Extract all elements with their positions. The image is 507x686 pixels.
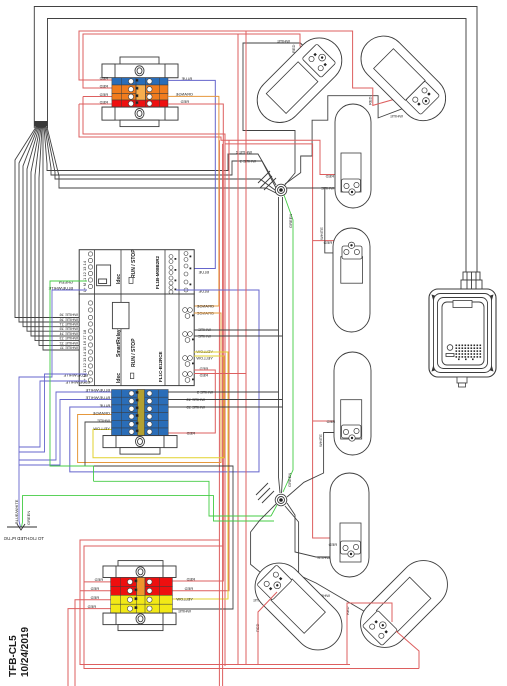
svg-text:YELLOW: YELLOW — [176, 597, 193, 602]
wire white J1 to oval R1 — [287, 187, 341, 189]
red stub TB3 l4 — [68, 609, 111, 686]
svg-text:BLUE: BLUE — [198, 289, 209, 294]
wire orange relay q2 loop — [78, 313, 221, 463]
antenna cable outer run (page border) — [34, 7, 477, 273]
red drop to TB3 loop B — [222, 144, 224, 546]
svg-text:ORANGE: ORANGE — [196, 304, 214, 309]
svg-text:WHITE: WHITE — [198, 327, 211, 332]
svg-text:FL1C-B12RCE: FL1C-B12RCE — [158, 351, 163, 382]
red loop TB3 inner — [80, 540, 219, 686]
wire WHITE 1 to splice — [45, 127, 276, 188]
W1 speaker grid — [446, 345, 454, 357]
svg-text:10/24/2019: 10/24/2019 — [20, 627, 31, 677]
terminal block TB3 rows — [111, 578, 173, 614]
oval light B2 (bottom right diagonal) — [351, 551, 458, 658]
wire WHITE 11 to module — [43, 127, 87, 350]
wireless receiver W1 body — [429, 289, 496, 387]
wire white fan 3 to splice — [46, 127, 275, 190]
plug terminator bar — [7, 524, 37, 530]
smart relay module U2 body — [79, 294, 194, 386]
wire red B2 right — [396, 631, 419, 669]
terminal block TB1 top plate — [102, 57, 178, 78]
terminal block TB3 bottom plate — [103, 613, 176, 631]
red tee to oval R3 — [313, 421, 358, 428]
svg-text:TFB-CL5: TFB-CL5 — [8, 635, 19, 677]
wire white pair splice link B — [282, 197, 283, 493]
svg-text:WHITE: WHITE — [178, 609, 191, 614]
wire WHITE 16 to module — [23, 127, 87, 327]
svg-text:BLUE: BLUE — [99, 403, 110, 408]
svg-text:WHITE: WHITE — [277, 39, 290, 44]
U2 output contacts — [183, 308, 193, 383]
splice junction J1 — [258, 171, 287, 196]
oval light R3 (vertical) — [334, 352, 371, 455]
oval light B1 (bottom left diagonal) — [245, 553, 352, 660]
svg-text:WHITE: WHITE — [97, 418, 110, 423]
oval light R4 (vertical) — [330, 473, 369, 577]
terminal block TB2 rows — [112, 390, 169, 436]
svg-text:WHITE: WHITE — [319, 227, 324, 240]
svg-text:RED: RED — [90, 595, 99, 600]
splice junction J2 — [256, 483, 287, 506]
svg-text:RED: RED — [323, 240, 332, 245]
wire WHITE 17 to module — [19, 127, 87, 322]
wire red tb1 down — [168, 104, 223, 581]
wireless receiver W1 antenna ferrule — [461, 272, 482, 289]
speaker grid dots — [456, 345, 458, 347]
wire red long A — [224, 137, 226, 666]
svg-text:RED: RED — [186, 431, 195, 436]
svg-text:RUN / STOP: RUN / STOP — [131, 338, 137, 367]
svg-text:Idec: Idec — [116, 373, 122, 383]
svg-text:RED: RED — [99, 84, 108, 89]
svg-text:RED: RED — [325, 174, 334, 179]
wire white J2 to oval B2 — [285, 506, 374, 617]
red loop top-left outer — [79, 31, 425, 105]
wire red B1 down — [258, 592, 277, 665]
wire WHITE 14 to module — [31, 127, 87, 336]
svg-text:WHITE 5: WHITE 5 — [196, 390, 213, 395]
red bus lower A — [80, 591, 350, 665]
wire bluewhite tb2 r1 left — [19, 392, 112, 460]
svg-text:WHITE: WHITE — [390, 114, 403, 119]
svg-text:RUN / STOP: RUN / STOP — [131, 249, 137, 278]
svg-text:RED: RED — [291, 44, 296, 53]
svg-text:WHITE: WHITE — [317, 555, 330, 560]
wire white J1 drop to oval R2 — [325, 188, 344, 253]
svg-text:RED: RED — [368, 96, 373, 105]
wire red relay down B — [194, 373, 246, 375]
red loop bottom inner — [83, 97, 352, 539]
wire WHITE 12 to module — [39, 127, 87, 345]
cable end sheath — [34, 121, 47, 129]
svg-text:SmartRelay: SmartRelay — [116, 329, 122, 357]
wire WHITE 15 to module — [27, 127, 87, 331]
wire white TB3 row4 loop — [85, 422, 233, 609]
svg-text:RED: RED — [99, 100, 108, 105]
oval light L2 (top right diagonal) — [352, 27, 455, 130]
terminal block TB1 bottom plate — [102, 107, 178, 127]
wire white J2 to oval B1 — [251, 504, 276, 581]
wire blue relay q2 loop — [70, 290, 259, 472]
U1 display — [97, 265, 111, 286]
TB3 terminal screws — [127, 579, 152, 611]
red stub row4 — [79, 103, 112, 105]
svg-text:RED: RED — [90, 586, 99, 591]
svg-text:GREEN: GREEN — [288, 214, 293, 228]
svg-text:WHITE: WHITE — [318, 434, 323, 447]
wire bluewhite module bottom — [19, 374, 87, 452]
wire white TB2 r2 — [168, 399, 282, 401]
wire white J2 to oval R3 — [287, 433, 343, 498]
U1 output pin marks — [175, 256, 192, 291]
svg-text:RED: RED — [186, 577, 195, 582]
wire red riser A — [237, 34, 239, 665]
svg-text:WHITE 15: WHITE 15 — [186, 405, 205, 410]
wire bluewhite tb2 r2 left — [19, 400, 112, 466]
wire red B2 — [347, 603, 392, 665]
svg-text:WHITE 1: WHITE 1 — [239, 159, 256, 164]
U2 display — [112, 302, 129, 328]
wire green J2 exit — [271, 505, 277, 516]
svg-text:FL1B-M08B2R2: FL1B-M08B2R2 — [155, 255, 160, 289]
wire red TB2 row6 to relay — [168, 370, 215, 433]
svg-text:GREEN: GREEN — [59, 280, 73, 285]
U2 terminals — [88, 301, 92, 382]
wire orange tb1 to relay — [168, 96, 219, 306]
antenna cable inner run — [48, 19, 467, 273]
red loop TB3 outer — [84, 546, 223, 686]
wire yellow relay loop — [93, 356, 224, 458]
svg-text:ORANGE: ORANGE — [175, 92, 193, 97]
red drop to TB3 loop A — [218, 140, 220, 540]
U2 output pin marks — [192, 315, 194, 381]
wire yellow relay to TB3 — [172, 352, 228, 599]
TB2 terminal screws — [129, 391, 152, 435]
wire bluewhite module bottom 2 — [19, 381, 87, 447]
svg-text:YELLOW: YELLOW — [93, 426, 110, 431]
wire white J2 to oval R4 — [287, 503, 339, 557]
svg-text:BLUE: BLUE — [198, 270, 209, 275]
svg-text:BLUE/WHITE: BLUE/WHITE — [63, 373, 88, 378]
red loop bottom outer — [79, 104, 350, 175]
wire white relay q3a — [194, 329, 279, 331]
red bus lower B — [84, 582, 419, 669]
wire WHITE 2 to splice — [44, 127, 276, 185]
wire green splice loop 2 — [22, 496, 275, 527]
terminal block TB1 rows — [112, 78, 168, 107]
svg-text:RED: RED — [326, 419, 335, 424]
svg-text:BLUE/WHITE: BLUE/WHITE — [14, 499, 19, 524]
svg-text:GREEN: GREEN — [26, 511, 31, 525]
wire white TB2 r1 — [168, 391, 278, 393]
svg-text:RED: RED — [184, 586, 193, 591]
wire WHITE 18 to module — [15, 127, 87, 318]
wire white fan 4 to splice — [47, 127, 276, 193]
TB2 bottom plate — [103, 436, 177, 455]
wire white J1 to light L1 — [243, 43, 315, 186]
wire white TB2 r3 — [168, 406, 282, 408]
oval light R1 (vertical) — [335, 104, 371, 208]
wire green J1 to J2 — [283, 195, 293, 492]
svg-text:RED: RED — [328, 542, 337, 547]
red stub TB3 l3 — [75, 600, 111, 686]
svg-text:RED: RED — [94, 577, 103, 582]
smart relay module U1 body — [79, 250, 194, 294]
wire green to plug — [50, 281, 94, 481]
wire green splice loop — [94, 481, 272, 516]
wire white relay q3b — [194, 335, 283, 337]
wire white pair splice link A — [279, 197, 281, 493]
wire red riser B — [245, 31, 247, 665]
terminal block TB3 top plate — [103, 561, 176, 578]
red stub row3 — [83, 96, 112, 98]
TB1 terminal screws — [128, 79, 152, 106]
svg-text:RED: RED — [87, 604, 96, 609]
svg-text:BLUE/WHITE: BLUE/WHITE — [65, 380, 90, 385]
svg-text:WHITE 11: WHITE 11 — [59, 345, 78, 350]
svg-text:RED: RED — [99, 92, 108, 97]
U1 terminals — [88, 252, 92, 289]
svg-text:GREEN: GREEN — [287, 473, 292, 487]
svg-text:WHITE: WHITE — [321, 186, 334, 191]
wire red long B — [172, 140, 229, 591]
svg-text:WHITE 13: WHITE 13 — [186, 397, 205, 402]
svg-text:RED: RED — [180, 99, 189, 104]
svg-text:Idec: Idec — [116, 274, 122, 284]
wire white J1 to light L2 — [285, 96, 418, 184]
oval light R2 (vertical) — [333, 228, 370, 332]
red loop top-left inner — [83, 34, 316, 88]
svg-text:RED: RED — [99, 76, 108, 81]
wire blue tb1 to relay — [168, 80, 215, 268]
red tee to oval R2 — [313, 241, 357, 249]
svg-text:ORANGE: ORANGE — [92, 411, 110, 416]
wire WHITE 13 to module — [35, 127, 87, 341]
U1 output contacts — [169, 252, 188, 295]
svg-text:TO LIGHTED PLUG: TO LIGHTED PLUG — [3, 536, 44, 541]
svg-text:L+ M 11 12 13 14: L+ M 11 12 13 14 — [82, 260, 87, 292]
wire bluewhite to plug — [19, 290, 87, 527]
oval light L1 (top left diagonal) — [248, 29, 351, 132]
